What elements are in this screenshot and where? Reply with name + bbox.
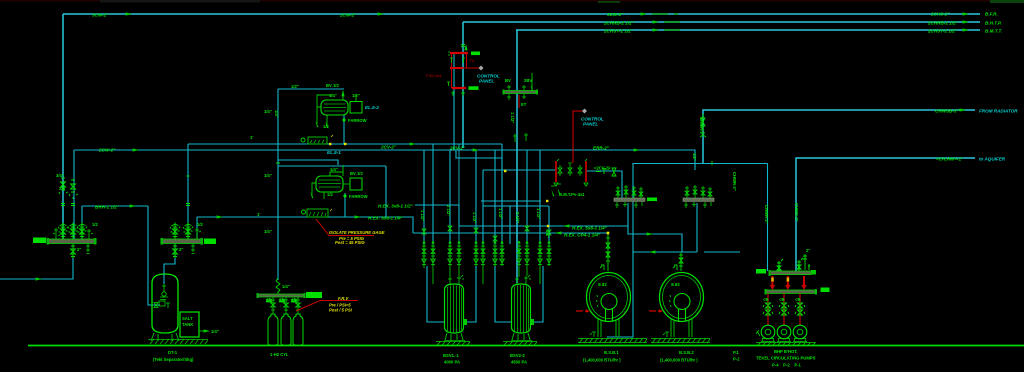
svg-text:B.H.T.P.: B.H.T.P. xyxy=(985,20,1002,25)
wire gauge line y217 xyxy=(197,217,413,233)
gauge circle 1 xyxy=(301,138,305,142)
valve marks on riser x63 upper xyxy=(59,178,68,206)
svg-text:CHWR-2": CHWR-2" xyxy=(764,205,769,224)
wire line y163 condenser header xyxy=(633,163,768,165)
svg-text:FARROW: FARROW xyxy=(349,194,368,199)
svg-text:1/4": 1/4" xyxy=(264,229,272,234)
wire y252 east stub xyxy=(704,251,740,253)
pump header left label box xyxy=(756,269,766,274)
manifold B label box xyxy=(204,239,216,245)
wire BRH line y206 xyxy=(82,205,148,207)
wire line y233 to chiller 1 xyxy=(413,232,608,234)
svg-text:1/4": 1/4" xyxy=(330,167,338,172)
valve cluster x495 xyxy=(493,240,498,266)
tank BSV-2 side nozzle xyxy=(531,319,535,325)
svg-text:1/2: 1/2 xyxy=(266,298,272,303)
valve cluster x502 xyxy=(500,240,505,266)
control valve station red frame xyxy=(450,53,479,88)
chiller 2 dotted gauge arc xyxy=(670,295,672,307)
svg-text:1': 1' xyxy=(257,212,260,217)
chiller 2 inner bell xyxy=(674,294,690,310)
svg-text:<CH,HW>-1": <CH,HW>-1" xyxy=(936,156,964,161)
valve below manifold A x73 xyxy=(71,244,76,258)
svg-text:DT-1: DT-1 xyxy=(168,350,178,355)
wire exchanger top feed y89 xyxy=(278,88,344,90)
valve V-B2 riser x188 xyxy=(183,223,193,240)
yellow junction dots xyxy=(546,200,548,202)
wire tank forest vertical x483 xyxy=(482,170,484,244)
svg-text:FARROW: FARROW xyxy=(348,118,367,123)
pump header upper bar xyxy=(770,271,811,275)
manifold B body xyxy=(162,239,202,244)
svg-text:1': 1' xyxy=(250,135,253,140)
wire 2CHRB header y22 xyxy=(463,21,980,23)
chiller 2 red flow arrow xyxy=(649,310,660,312)
svg-text:<B: <B xyxy=(795,297,800,302)
svg-text:CHWS-2": CHWS-2" xyxy=(794,203,799,222)
svg-text:2CW-2": 2CW-2" xyxy=(98,148,116,153)
gauge box 1 xyxy=(308,137,327,144)
svg-text:1/2: 1/2 xyxy=(323,124,329,129)
svg-text:2CW-2": 2CW-2" xyxy=(339,12,357,17)
svg-text:H.EX. 5x8-1 1/4": H.EX. 5x8-1 1/4" xyxy=(572,225,608,230)
tank BSV-2 top relief glyphs xyxy=(515,275,531,284)
svg-text:1/2: 1/2 xyxy=(291,298,297,303)
valve V-A1 riser x63 xyxy=(58,223,68,240)
wire tank forest vertical x527 xyxy=(526,150,528,244)
svg-text:1 1/2": 1 1/2" xyxy=(510,112,515,123)
wire tank forest vertical x549 xyxy=(548,206,550,244)
pump base hatch xyxy=(756,342,816,346)
valve marks on riser x73 upper xyxy=(69,180,78,206)
valve on PRV outlet line xyxy=(596,168,610,174)
wire riser x463 control station xyxy=(462,22,464,148)
yellow dot junction xyxy=(607,232,609,234)
cylinder valve set 2 xyxy=(279,297,289,314)
wire tank forest vertical x459 drop xyxy=(458,144,460,244)
svg-text:<2CV-2": <2CV-2" xyxy=(594,166,610,171)
wire cylinder manifold drop x278 xyxy=(277,278,279,280)
chiller 2 feet glyphs xyxy=(663,332,669,337)
wire CHWSB-3 header y110 xyxy=(703,110,975,163)
wire line y252 xyxy=(633,251,697,253)
svg-text:BRH-1 1/2": BRH-1 1/2" xyxy=(95,204,120,209)
red drop arrows between headers xyxy=(770,276,807,290)
wire riser x82 xyxy=(81,206,83,239)
valve on CHWSB riser x703 xyxy=(700,114,706,137)
foundation hatch under PT-1 xyxy=(150,339,208,344)
svg-text:TANK: TANK xyxy=(182,322,193,327)
pump header lower bar xyxy=(766,290,815,293)
cylinder manifold label box xyxy=(306,292,322,298)
tank BSV-2 tube hatch xyxy=(515,285,529,333)
svg-text:1 1/2": 1 1/2" xyxy=(420,210,425,221)
svg-text:1/2: 1/2 xyxy=(92,222,98,227)
svg-text:1/4": 1/4" xyxy=(264,173,272,178)
valve cluster x424 xyxy=(422,240,427,266)
expansion manifold bar xyxy=(504,91,536,94)
green cluster right of line P end xyxy=(513,133,528,142)
tank BSV-1 top relief glyphs xyxy=(448,275,464,284)
svg-text:1/2": 1/2" xyxy=(291,84,299,89)
EL.5-2 shell xyxy=(321,100,348,115)
wire drop x344 vessel to line P xyxy=(343,115,345,144)
tank BSV-2 shell xyxy=(512,284,531,333)
svg-text:2CV-2": 2CV-2" xyxy=(380,145,397,150)
svg-text:BSV1.-1: BSV1.-1 xyxy=(443,353,459,358)
wire control station drop pair xyxy=(453,54,455,150)
cylinder manifold zigzag feed xyxy=(276,278,280,294)
chiller 1 legs xyxy=(598,319,619,337)
arrow on suction y279 xyxy=(36,277,42,280)
chiller 1 dotted gauge arc xyxy=(597,295,599,307)
svg-text:PANEL: PANEL xyxy=(583,122,598,127)
svg-text:H.EX. CP4-1 1/4": H.EX. CP4-1 1/4" xyxy=(564,233,601,238)
cylinder manifold bar xyxy=(258,294,304,297)
red suction drops to pumps xyxy=(768,294,800,326)
svg-text:2CHRB-2 1/2": 2CHRB-2 1/2" xyxy=(603,21,635,26)
svg-text:(1,400,000 BTU/hr ): (1,400,000 BTU/hr ) xyxy=(660,358,698,363)
svg-text:2BV: 2BV xyxy=(524,78,532,83)
chiller manifold 1 bar xyxy=(614,198,645,201)
gauge box 2 xyxy=(307,209,328,217)
pump P-2 xyxy=(777,325,791,339)
tank PT-1 internal gauge glyphs xyxy=(159,284,170,308)
svg-text:4500 PA: 4500 PA xyxy=(511,360,527,365)
svg-text:BV 1/2: BV 1/2 xyxy=(350,171,363,176)
svg-text:2CHS-2": 2CHS-2" xyxy=(930,11,950,16)
svg-text:1-H2 CYL: 1-H2 CYL xyxy=(270,352,289,357)
PRV control line red xyxy=(573,111,583,163)
valves above manifold 2 xyxy=(685,185,712,198)
svg-text:EL.5-1: EL.5-1 xyxy=(327,150,341,155)
valve cluster x519 xyxy=(517,240,522,266)
drain valve below manifold A x88 xyxy=(86,244,90,254)
valve on PT-1 side feed xyxy=(154,303,158,308)
svg-text:CHWSB-3": CHWSB-3" xyxy=(935,108,959,113)
wire tank forest vertical x433 xyxy=(432,144,434,244)
wire tank forest vertical x476 xyxy=(475,150,477,244)
valve V-A4 stub x56 xyxy=(53,228,60,239)
pump header label box right xyxy=(821,288,830,293)
svg-text:1/4": 1/4" xyxy=(264,109,272,114)
svg-text:2CV-2": 2CV-2" xyxy=(449,146,466,151)
EL.5-2 channel box xyxy=(350,102,362,114)
svg-text:2 1/2": 2 1/2" xyxy=(446,205,451,216)
svg-text:1 1/2": 1 1/2" xyxy=(536,208,541,219)
svg-text:H.EX. 5x8-1 1/4": H.EX. 5x8-1 1/4" xyxy=(368,215,404,220)
cylinder valve set 3 xyxy=(291,297,301,314)
wire jog y158 xyxy=(456,150,502,158)
chiller 1 inner bell xyxy=(601,294,617,310)
svg-text:B.S.B.2: B.S.B.2 xyxy=(679,350,694,355)
wire riser x697 manifold 2 xyxy=(696,203,698,252)
svg-text:1/2": 1/2" xyxy=(692,153,697,161)
svg-text:1/4": 1/4" xyxy=(282,284,290,289)
svg-text:P.1: P.1 xyxy=(733,350,739,355)
pump P-4 xyxy=(761,325,775,339)
green continuation lines to tanks xyxy=(424,266,540,284)
svg-text:ISOLATE PRESSURE GAGE: ISOLATE PRESSURE GAGE xyxy=(329,230,385,235)
svg-text:FROM RADIATOR: FROM RADIATOR xyxy=(979,108,1018,113)
isolate leader red xyxy=(316,219,374,236)
valve V-A5 stub x89 xyxy=(87,229,93,239)
svg-text:4000 PA: 4000 PA xyxy=(444,360,460,365)
svg-text:SALT: SALT xyxy=(182,316,193,321)
svg-text:(1,400,000 BTU/hr ): (1,400,000 BTU/hr ) xyxy=(583,358,621,363)
wire riser x188 manifold B xyxy=(187,144,189,240)
svg-text:P-2: P-2 xyxy=(733,357,740,362)
manifold A label box xyxy=(33,238,46,244)
svg-text:BHP B'HOT.: BHP B'HOT. xyxy=(774,349,798,354)
wire riser x63 to manifold A xyxy=(62,14,64,239)
tank BSV-1 shell xyxy=(445,284,464,333)
wire drop x148 to PT-1 xyxy=(148,206,160,305)
label box green top xyxy=(471,52,480,56)
EL.5-2 outlet dot xyxy=(342,118,345,121)
wire tank1 left side entry xyxy=(427,266,445,322)
wire drop x633 xyxy=(607,163,633,337)
tick on y163 line xyxy=(711,161,713,165)
drain valve below manifold B x193 xyxy=(191,244,195,254)
svg-text:F.R.V: F.R.V xyxy=(338,296,349,301)
EL.5-1 shell xyxy=(316,176,343,192)
svg-text:3CW-2": 3CW-2" xyxy=(92,12,109,17)
PRV valves green xyxy=(554,159,588,186)
valve V-A2 riser x73 xyxy=(68,223,78,240)
wire PT-1 feed from manifold B xyxy=(164,241,175,284)
yellow dots y144 xyxy=(329,143,331,145)
svg-text:B.F.R.: B.F.R. xyxy=(985,11,998,16)
wire line y205 hex xyxy=(415,205,459,226)
chiller 2 body xyxy=(660,273,704,322)
svg-text:9.81: 9.81 xyxy=(598,282,607,287)
wire tank2 left side entry xyxy=(495,266,511,322)
chiller 1 red flow arrow xyxy=(576,310,587,312)
cylinder 2 xyxy=(281,314,291,346)
floor slab line xyxy=(28,345,1024,347)
svg-text:3CW-2": 3CW-2" xyxy=(607,12,624,17)
wire tank forest vertical x424 xyxy=(423,150,425,244)
svg-text:1/2": 1/2" xyxy=(545,230,550,238)
svg-text:TV: TV xyxy=(469,58,474,63)
svg-text:1 1/2": 1 1/2" xyxy=(498,208,503,219)
chiller 1 feed valve column xyxy=(600,233,610,271)
wire line y206 xyxy=(483,205,549,207)
svg-text:PANEL: PANEL xyxy=(479,79,494,84)
svg-text:BV: BV xyxy=(505,78,511,83)
valve cluster x433 xyxy=(431,240,436,266)
svg-text:1/4": 1/4" xyxy=(329,93,337,98)
wire line y201 chiller supply xyxy=(481,200,541,202)
valve cluster above upper bar mid xyxy=(777,254,810,271)
svg-text:9.81: 9.81 xyxy=(671,282,680,287)
svg-text:1/4": 1/4" xyxy=(211,329,219,334)
wire riser x767 pump header xyxy=(767,164,769,272)
wire line y170 to PRV xyxy=(483,169,556,171)
wire tank forest vertical x450 xyxy=(449,150,451,244)
faint window-edge artifact strip xyxy=(0,0,1024,2)
valve cluster x476 xyxy=(474,240,479,266)
valve V-A3 riser x82 xyxy=(77,223,87,240)
svg-text:2 1/2": 2 1/2" xyxy=(515,212,520,223)
svg-text:2": 2" xyxy=(179,247,183,252)
pedestal hatch BSV-2 xyxy=(504,341,537,345)
diamond node control panel 2 xyxy=(582,109,587,114)
wire drop x386 xyxy=(385,166,387,217)
tank PT-1 legs xyxy=(151,333,179,341)
wire tank forest vertical x540 xyxy=(539,150,541,244)
chiller manifold 1 side box xyxy=(647,198,657,202)
wire jog y234 chiller manifold 2 xyxy=(628,226,682,252)
cylinder valve set 1 xyxy=(266,297,276,314)
svg-text:1/2": 1/2" xyxy=(352,93,360,98)
FRV red leader xyxy=(296,301,358,312)
svg-text:F.32-1x4: F.32-1x4 xyxy=(426,73,442,78)
svg-text:B.M.T.T.: B.M.T.T. xyxy=(985,28,1002,33)
wire riser x74 manifold A xyxy=(73,150,75,240)
svg-text:Post / 5 PSI: Post / 5 PSI xyxy=(329,308,353,313)
EL.5-2 inlet piping xyxy=(317,95,332,124)
svg-text:P-4 P-2 P-1: P-4 P-2 P-1 xyxy=(772,363,802,368)
valve cluster x540 xyxy=(538,240,543,266)
gauge circle 2 xyxy=(302,210,306,214)
wire tank2 right side entry xyxy=(531,266,543,322)
svg-text:Post = 45 PSIG: Post = 45 PSIG xyxy=(335,240,365,245)
tank BSV-1 tube hatch xyxy=(448,285,462,333)
diamond node to control panel xyxy=(479,66,484,71)
wire tank1 right side entry xyxy=(464,266,476,322)
yellow flame tips on arrows xyxy=(771,278,774,282)
svg-text:(Tekl Separator/Skg): (Tekl Separator/Skg) xyxy=(153,357,194,362)
wire 3CW header y14 xyxy=(63,13,980,15)
svg-text:BV 1/2: BV 1/2 xyxy=(326,83,339,88)
svg-text:1/2: 1/2 xyxy=(197,222,203,227)
wire tank forest vertical x495 xyxy=(494,150,496,244)
svg-text:<B: <B xyxy=(779,297,784,302)
svg-text:CHWR-3": CHWR-3" xyxy=(732,172,737,191)
EL.5-1 inlet piping xyxy=(312,172,343,196)
valve V-B3 riser x197 xyxy=(195,228,201,239)
tank BSV-2 base xyxy=(512,333,530,340)
svg-text:B.M.T.Pv-4x1: B.M.T.Pv-4x1 xyxy=(559,192,585,197)
svg-text:1/2: 1/2 xyxy=(279,298,285,303)
tank BSV-1 side nozzle xyxy=(464,319,468,325)
glyphs below manifold 1 xyxy=(615,202,642,208)
chiller 1 base hatch xyxy=(578,338,647,343)
wire suction line y279 left plant xyxy=(0,258,73,279)
glyphs below manifold 2 xyxy=(684,202,711,208)
tank PT-1 shell xyxy=(152,274,178,333)
SALT TANK drain line xyxy=(199,330,208,332)
svg-text:<B: <B xyxy=(763,297,768,302)
wire PRV outlet y171 xyxy=(586,171,622,198)
station green trim glyphs xyxy=(447,44,465,96)
tank PT-1 inlet pipe into dome xyxy=(163,274,165,284)
EL.5-2 drain xyxy=(326,115,328,126)
svg-text:2CHSY-2 1/2": 2CHSY-2 1/2" xyxy=(927,28,958,33)
valve ticks on bar xyxy=(507,85,526,100)
feed arrow green xyxy=(531,73,533,90)
chiller 1 feet glyphs xyxy=(590,332,596,337)
wire tank forest vertical x502 xyxy=(501,144,503,244)
EL.5-1 channel box xyxy=(350,178,362,190)
valve cluster x483 xyxy=(481,240,486,266)
PRV red posts xyxy=(555,161,557,182)
wire riser x517 expansion manifold xyxy=(516,30,518,283)
arrows on y233/y226 lines xyxy=(649,250,655,253)
svg-text:1/2: 1/2 xyxy=(327,192,333,197)
valve cluster x450 xyxy=(448,240,453,266)
pedestal hatch BSV-1 xyxy=(437,341,470,345)
chiller 2 base hatch xyxy=(651,338,710,343)
svg-text:H.EX. 3x8-1 1/2": H.EX. 3x8-1 1/2" xyxy=(378,203,414,208)
valve below manifold B x175 xyxy=(173,244,178,258)
valve V-B1 riser x175 xyxy=(170,223,180,240)
extra upper inline valves on forest xyxy=(422,226,551,241)
wire to-aquifer header y158 xyxy=(796,158,975,271)
wire 2CW line y150 from left plant xyxy=(74,150,695,170)
chiller 2 feed valve column xyxy=(673,252,683,271)
pump suction valve clusters xyxy=(763,303,805,315)
svg-text:B.S.B.1: B.S.B.1 xyxy=(604,350,619,355)
wire riser x197 manifold B xyxy=(196,217,198,240)
chiller 2 legs xyxy=(671,319,692,337)
valve cluster x459 xyxy=(457,240,462,266)
svg-text:1/4": 1/4" xyxy=(274,110,279,118)
svg-text:EL.5-2: EL.5-2 xyxy=(365,105,379,110)
wire drop x278 long xyxy=(277,89,279,278)
svg-text:2": 2" xyxy=(806,248,810,253)
svg-text:2CHRB-2 1/2": 2CHRB-2 1/2" xyxy=(927,20,959,25)
down arrow cluster near PRV inlet xyxy=(551,190,554,197)
svg-text:3/4": 3/4" xyxy=(56,173,64,178)
wire EL.5-1 feed y160 xyxy=(278,160,338,165)
wire drop x345 EL.5-1 xyxy=(344,193,346,217)
red relief stub xyxy=(518,95,520,108)
EL.5-1 drain xyxy=(323,192,325,199)
label box green bottom xyxy=(469,86,479,90)
chiller 1 body xyxy=(587,273,631,322)
svg-text:1 1/2": 1 1/2" xyxy=(472,212,477,223)
svg-text:2W: 2W xyxy=(59,186,65,191)
wire 2CHSY header y30 xyxy=(516,29,980,31)
chiller manifold 2 bar xyxy=(683,198,714,201)
SALT TANK box xyxy=(180,312,199,337)
svg-text:2": 2" xyxy=(77,247,81,252)
svg-text:ET: ET xyxy=(521,102,527,107)
tank BSV-1 base xyxy=(445,333,463,340)
pump P-1 xyxy=(793,325,807,339)
svg-text:TEKEL CIRCULATING PUMPS: TEKEL CIRCULATING PUMPS xyxy=(756,356,816,361)
manifold A body xyxy=(48,239,95,244)
svg-text:2CHSY-2 1/2": 2CHSY-2 1/2" xyxy=(603,29,634,34)
valves above manifold 1 xyxy=(616,185,643,198)
wire 2CV line y144 xyxy=(188,143,502,145)
union ticks riser x188 xyxy=(186,204,190,206)
valve cluster x549 xyxy=(547,240,552,266)
cylinder 1 xyxy=(268,314,278,346)
valve cluster x527 xyxy=(525,240,530,266)
cylinder 3 xyxy=(293,314,303,346)
svg-text:ERR-2": ERR-2" xyxy=(593,145,610,150)
wire EL.5-1 feed y166 xyxy=(278,165,386,167)
svg-text:to AQUIFER: to AQUIFER xyxy=(979,156,1006,161)
svg-text:BSV2-2: BSV2-2 xyxy=(510,353,525,358)
wire line y226 to chiller manifold 1 xyxy=(459,203,628,226)
